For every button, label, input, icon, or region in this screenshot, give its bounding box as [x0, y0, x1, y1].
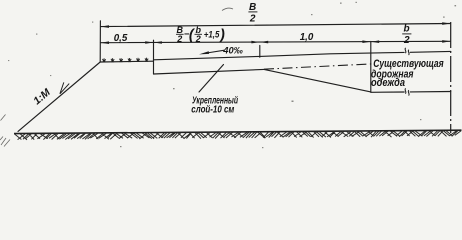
svg-text:1,0: 1,0: [300, 32, 314, 43]
road centreline axis (dash-dot vertical): [450, 22, 452, 133]
svg-text:слой-10 см: слой-10 см: [191, 104, 235, 115]
dash-dot line of old pavement surface: [264, 64, 372, 69]
fraction bar of B/2: [248, 11, 257, 13]
scan artifact marks: [0, 8, 233, 146]
extension line edge of existing pavement: [370, 41, 372, 92]
grass tufts on shoulder: [102, 58, 148, 62]
arrowhead row2 far-right: [442, 40, 450, 43]
ground line: [14, 130, 462, 133]
break symbol on bottom pavement line: [405, 88, 409, 95]
grass shoulder line: [100, 60, 153, 63]
extension line edge of widening: [153, 40, 155, 74]
svg-text:одежда: одежда: [371, 77, 405, 89]
fraction bar of b/2 in formula: [195, 33, 203, 35]
shaft of 40 promille arrow: [208, 50, 225, 53]
arrowheads meeting at surface kink: [251, 41, 259, 44]
break symbol on top pavement line: [405, 48, 409, 55]
arrowhead top-left: [101, 25, 109, 28]
embankment slope line 1:M: [18, 62, 100, 131]
fraction bar of b/2 label: [402, 33, 411, 35]
top surface of existing pavement with break gap: [260, 51, 451, 56]
arrowhead of 40 promille slope arrow: [199, 51, 209, 54]
svg-text:40‰: 40‰: [222, 45, 243, 55]
bottom of existing pavement with break gap: [371, 91, 451, 94]
dimension line row 2: [101, 41, 451, 42]
fraction bar of B/2 in formula: [176, 33, 184, 35]
label B/2 (top): [249, 2, 256, 25]
leader line for strengthened layer: [199, 65, 224, 93]
top surface of widening (40 promille slope): [154, 56, 261, 59]
arrowhead top-right: [442, 22, 450, 25]
label b/2 (right): [403, 24, 410, 46]
svg-text:b: b: [404, 24, 410, 35]
svg-text:2: 2: [195, 34, 201, 44]
svg-text:+1,5: +1,5: [204, 29, 220, 39]
svg-text:B: B: [249, 2, 256, 13]
label formula B/2-(b/2+1,5): [176, 25, 225, 44]
cut slope under old shoulder: [264, 69, 371, 92]
svg-text:2: 2: [176, 34, 182, 44]
slope direction mark (open V on slope line): [60, 82, 69, 93]
bottom of strengthened layer wedge: [154, 69, 265, 74]
svg-text:2: 2: [403, 35, 410, 46]
svg-text:0,5: 0,5: [114, 33, 128, 44]
dimension line B/2 (top, full half-width): [101, 24, 451, 27]
extension line left edge: [99, 21, 101, 62]
arrowheads meeting at edge of existing pavement: [362, 40, 370, 43]
ground hatch band: [15, 131, 462, 140]
svg-text:2: 2: [249, 14, 256, 25]
extension tick at surface kink: [259, 46, 261, 58]
paper specks: [8, 2, 456, 148]
arrowheads meeting at edge of widening: [145, 41, 153, 44]
paper background: [0, 0, 462, 152]
arrowhead row2 far-left: [101, 41, 109, 44]
svg-text:): ): [218, 28, 225, 44]
